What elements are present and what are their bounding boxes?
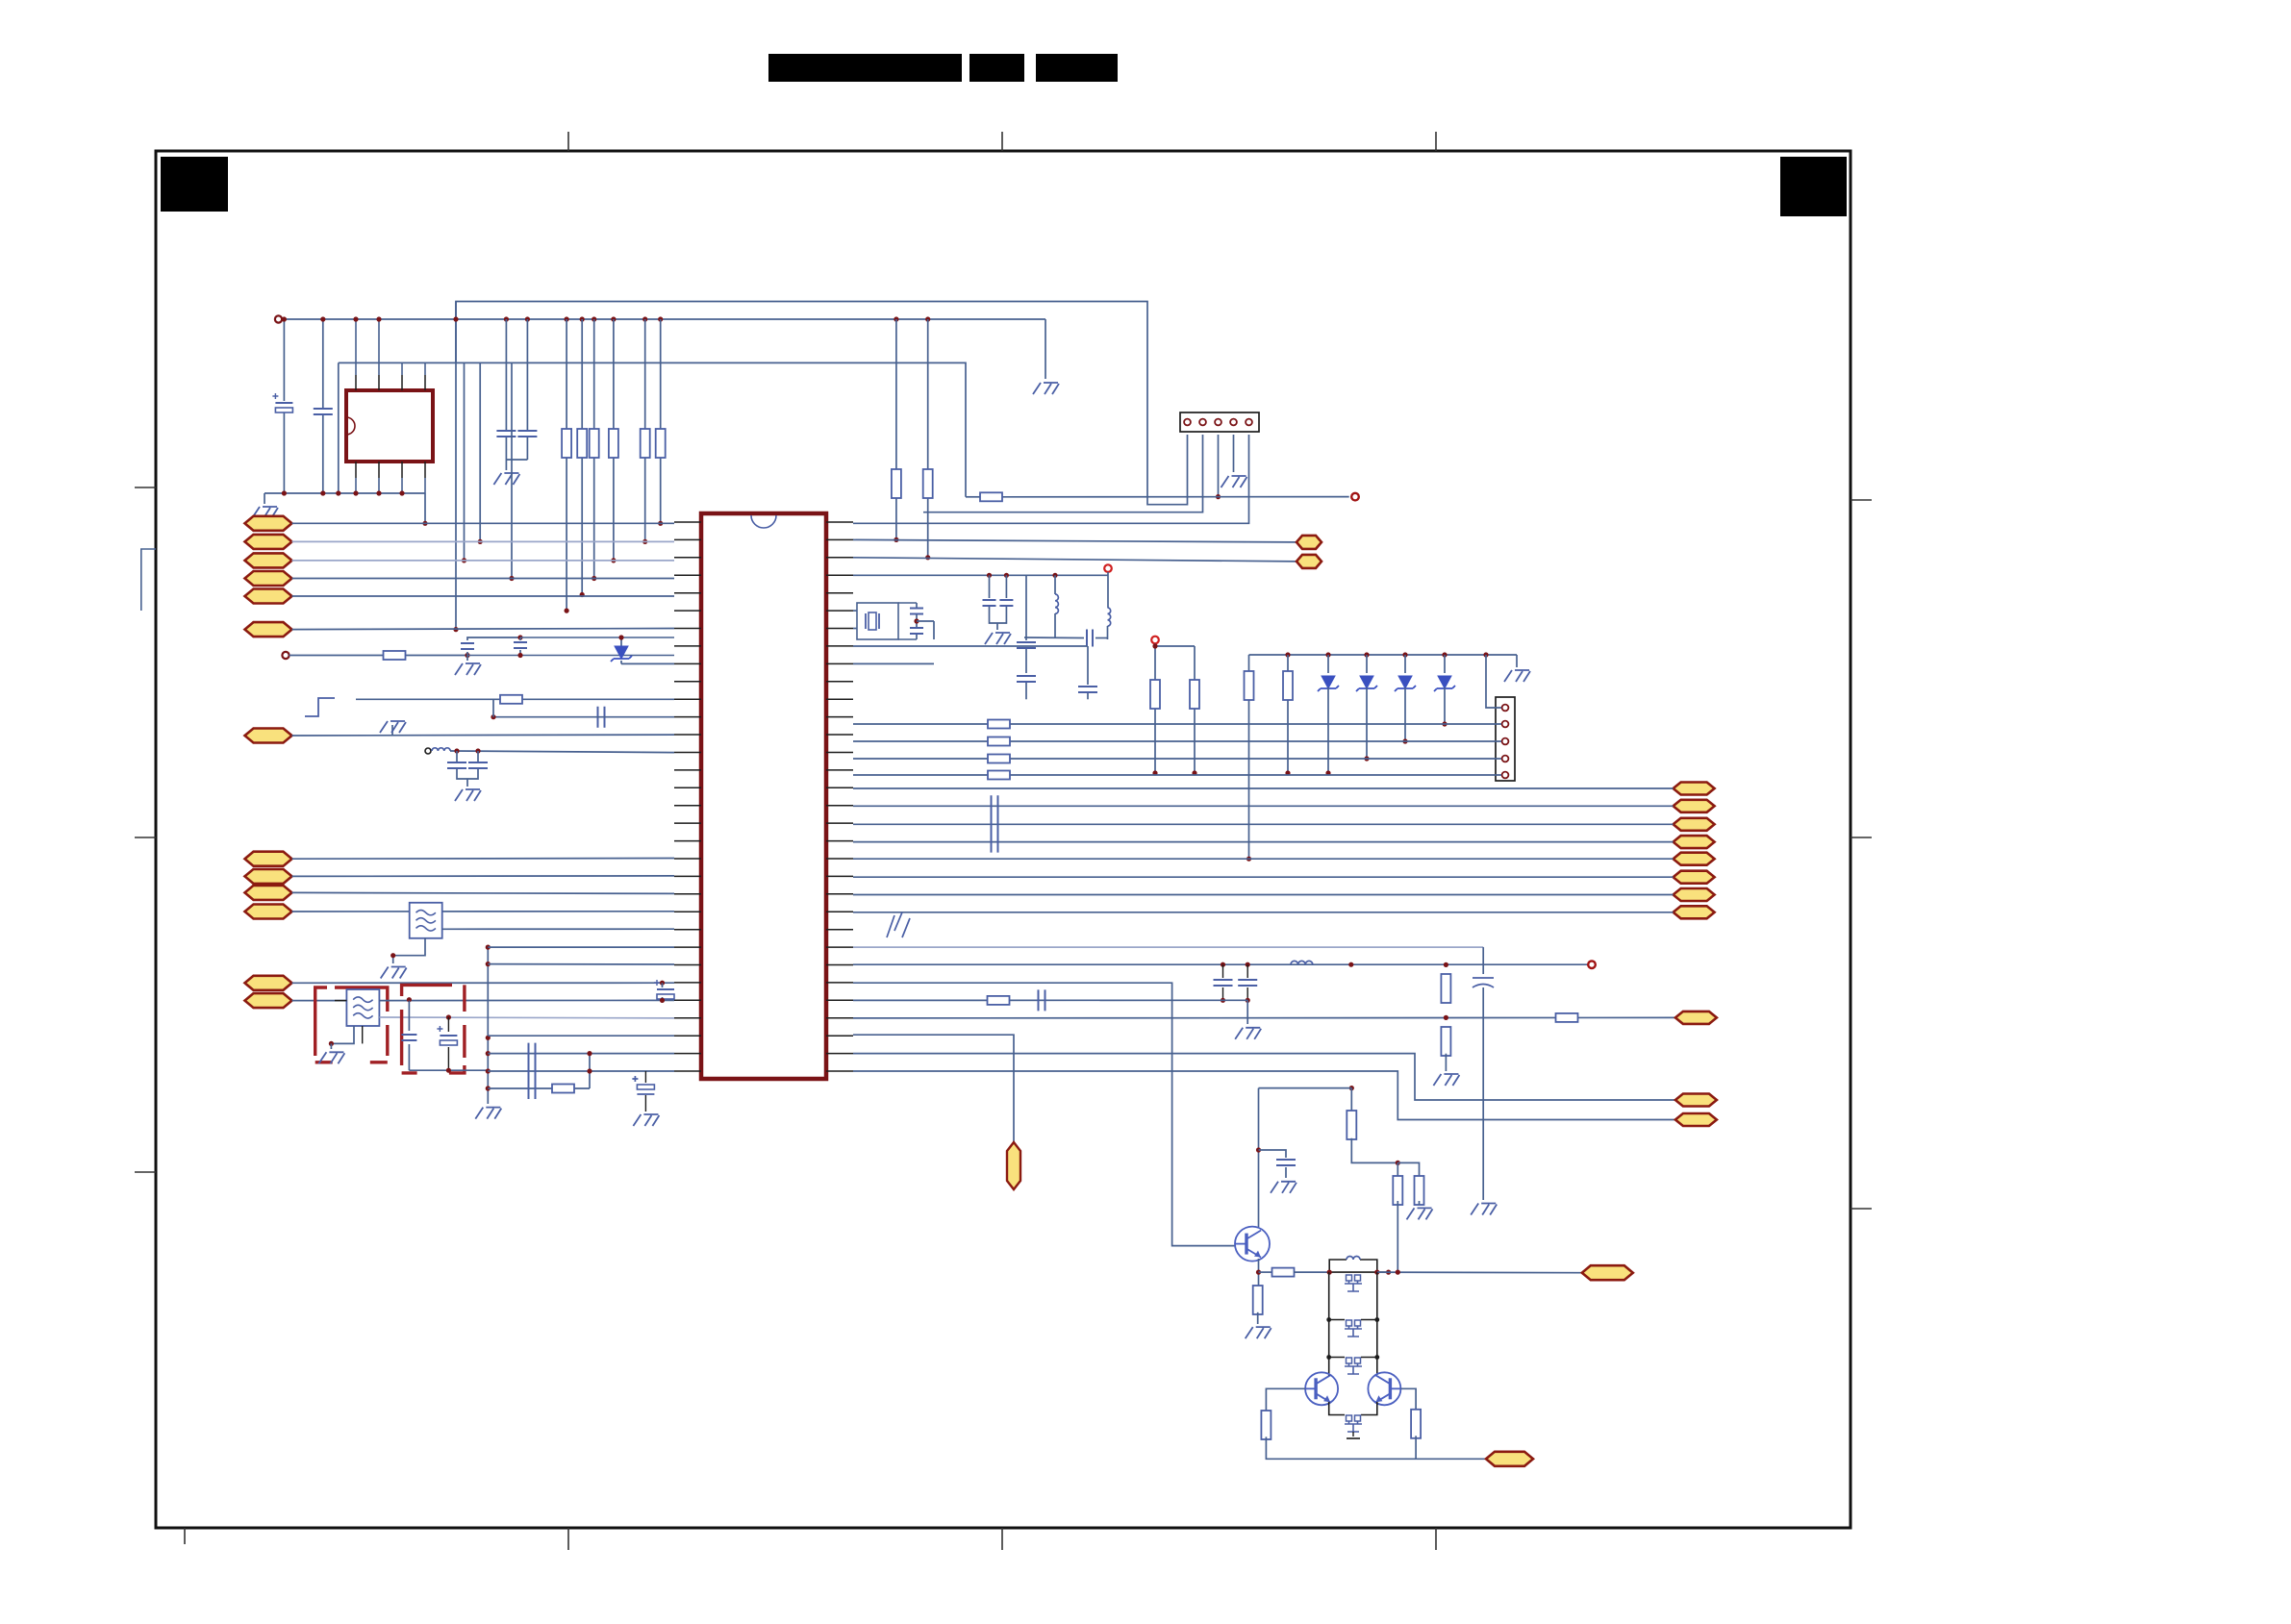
pin28R line bbox=[853, 1016, 1675, 1019]
node VCC open circle bbox=[275, 315, 282, 322]
capacitor C10 bbox=[401, 1035, 416, 1040]
flag IN3 bbox=[245, 553, 292, 567]
ground G5 bbox=[455, 663, 481, 675]
cap C7 series bbox=[598, 707, 605, 728]
series cap C13b bbox=[529, 1078, 536, 1099]
ground G7 lead bbox=[466, 779, 468, 787]
resistor R20 bbox=[988, 771, 1010, 780]
flag OUT3 bbox=[1674, 818, 1715, 831]
capacitor C5 bbox=[461, 643, 474, 649]
bottom out wire bbox=[1416, 1458, 1486, 1460]
OUT7 wire bbox=[853, 894, 1674, 896]
FL2 wires bbox=[335, 1000, 346, 1002]
U1 pins bbox=[674, 521, 701, 523]
flag VOUT vertical bbox=[1007, 1142, 1020, 1189]
right small cap C15 bbox=[660, 981, 665, 986]
fiducial ticks bbox=[567, 132, 569, 151]
node open circle AGC bbox=[282, 652, 289, 659]
flag OUT12 bbox=[1582, 1265, 1633, 1280]
ground G20 bbox=[1407, 1208, 1433, 1219]
pullup resistor bank wires bbox=[660, 319, 662, 523]
under-IC line junction bbox=[1349, 1086, 1354, 1090]
cap C19 bbox=[1024, 637, 1084, 639]
shield box B bbox=[402, 985, 465, 1073]
box B cap C10 wires bbox=[407, 997, 412, 1002]
pin7R stub bbox=[853, 628, 857, 630]
LC block trimmer bbox=[1347, 1275, 1352, 1281]
node circle small bbox=[425, 748, 431, 754]
series cap C13 bbox=[529, 1061, 536, 1082]
pin16R line bbox=[853, 774, 1501, 776]
resistor R28 bbox=[1397, 1162, 1398, 1180]
resistor R26 bbox=[1272, 1268, 1295, 1277]
node open circle NC1 bbox=[1351, 493, 1359, 501]
pin8R line bbox=[853, 645, 1088, 647]
transistor Q2 bbox=[1305, 1372, 1338, 1405]
IN9 wire bbox=[292, 875, 675, 878]
pin31L wire bbox=[488, 1070, 674, 1072]
electrolytic C11 wires bbox=[447, 1017, 449, 1032]
IN10 wire bbox=[292, 892, 675, 893]
caps C20 C21 column bbox=[1025, 575, 1027, 640]
coil L3 bbox=[1291, 961, 1313, 964]
emitter out wire bbox=[1256, 1270, 1261, 1275]
pin6R stub bbox=[853, 610, 857, 612]
vertical drop x1542 bbox=[1482, 947, 1484, 974]
electrolytic C16 bbox=[637, 1085, 654, 1089]
transistor Q3 bbox=[1368, 1372, 1400, 1405]
main IC U1 body bbox=[701, 513, 826, 1079]
OUT2 wire bbox=[853, 805, 1674, 807]
FL1 output wire bbox=[442, 928, 674, 930]
pin31R staircase to flag bbox=[853, 1071, 1675, 1120]
pin step line bbox=[853, 946, 1483, 948]
capacitor C3 bbox=[496, 431, 516, 437]
capacitor C26 bbox=[1473, 978, 1494, 987]
R27 chain from under-IC line bbox=[1350, 1088, 1352, 1112]
AGC net wires bbox=[465, 653, 469, 658]
rail A wire bbox=[456, 302, 1188, 505]
Q1 emitter wire bbox=[1258, 1259, 1260, 1288]
crossing vertical x482 bbox=[464, 362, 466, 561]
OUT8 wire bbox=[853, 912, 1674, 913]
R23 R24 chain bbox=[1441, 974, 1450, 1003]
node open circle PWR bbox=[1588, 961, 1596, 968]
pin26R line bbox=[853, 983, 1235, 1245]
top redaction bar 2 bbox=[969, 54, 1024, 82]
decoupling caps C3 C4 leads bbox=[505, 319, 507, 430]
flag OUT8 bbox=[1674, 906, 1715, 918]
IN4 wire bbox=[292, 578, 675, 580]
ground G18 bbox=[1271, 1182, 1297, 1193]
pin4R line bbox=[853, 574, 1108, 576]
wire drop x351 bbox=[338, 362, 340, 493]
diode D4 bbox=[1404, 655, 1406, 673]
capacitor C2 leads bbox=[322, 319, 324, 408]
ground G13 bbox=[1504, 670, 1530, 682]
capacitor C8 bbox=[447, 762, 466, 768]
diode D3 bbox=[1366, 655, 1368, 673]
RC cluster wires bbox=[450, 751, 674, 753]
resistor R7 bbox=[892, 469, 901, 498]
flag OUT11 bbox=[1675, 1113, 1717, 1126]
flag OUT6 bbox=[1674, 871, 1715, 884]
U2 top pins bbox=[355, 319, 357, 375]
corner black box top-left bbox=[161, 157, 228, 212]
resistor R8 wire bbox=[927, 319, 929, 558]
ground G19 bbox=[1246, 1327, 1271, 1338]
pin2R line to flag bbox=[853, 539, 1297, 542]
VT resistor wires bbox=[1154, 643, 1156, 773]
crystal X1 bbox=[866, 613, 879, 629]
CN1 pin4 wire bbox=[1233, 435, 1235, 472]
flag IN10 bbox=[245, 886, 292, 900]
Q2 base network bbox=[1266, 1388, 1305, 1412]
crossing vertical x499 bbox=[479, 362, 481, 541]
IN1 wire bbox=[292, 522, 675, 524]
box B bottom wire bbox=[409, 1069, 488, 1071]
resistor R18 bbox=[988, 737, 1010, 746]
flag OUT-A bbox=[1297, 536, 1322, 549]
resistor R19 bbox=[988, 755, 1010, 763]
series cap C12 bbox=[529, 1043, 536, 1064]
capacitor C4 bbox=[517, 431, 537, 437]
emitter join wires bbox=[1329, 1402, 1345, 1415]
Q1 collector feed bbox=[1259, 1087, 1352, 1089]
ladder rails bbox=[1328, 1272, 1330, 1375]
flag OUT5 bbox=[1674, 853, 1715, 865]
ladder trimmer 4 bbox=[1347, 1415, 1352, 1421]
ground G13 stub bbox=[1516, 655, 1518, 667]
resistor R12 bbox=[552, 1085, 574, 1093]
ground drop x1297 bbox=[1246, 1000, 1248, 1024]
series cap C29 bbox=[1039, 989, 1045, 1011]
pin13R line bbox=[853, 723, 1501, 725]
pin30R staircase to flag bbox=[853, 1054, 1675, 1100]
resistor R10 bbox=[384, 651, 406, 660]
Q3 base network bbox=[1400, 1388, 1416, 1412]
flag OUT10 bbox=[1675, 1094, 1717, 1107]
pin9R line bbox=[853, 662, 934, 664]
ground drop from top rail bbox=[1045, 319, 1046, 379]
ground G6 rotated bbox=[380, 721, 406, 733]
sheet border bbox=[156, 151, 1850, 1528]
OUT6 wire bbox=[853, 876, 1674, 878]
shield box A bbox=[315, 987, 388, 1062]
resistor R17 bbox=[988, 720, 1010, 729]
cap pair C17 C18 bbox=[989, 575, 991, 598]
zener D1 bbox=[615, 646, 628, 659]
connector CN1 body bbox=[1180, 412, 1259, 432]
resistor R22 bbox=[1556, 1013, 1578, 1022]
OUT5 wire bbox=[853, 858, 1674, 860]
CN1 pin5 wire bbox=[853, 435, 1249, 523]
resistor R7 wire bbox=[895, 319, 897, 539]
electrolytic C1 leads bbox=[283, 319, 285, 401]
Q1 collector rail bbox=[1258, 1088, 1260, 1227]
diode bus bbox=[1249, 654, 1518, 656]
flag IN6 bbox=[245, 622, 292, 637]
resistor R8 bbox=[923, 469, 933, 498]
OUT1 wire bbox=[853, 787, 1674, 789]
corner black box top-right bbox=[1780, 157, 1847, 216]
IN3 wire bbox=[292, 560, 675, 562]
ground G2 bbox=[252, 507, 278, 518]
U2 ground rail bbox=[264, 492, 425, 494]
electrolytic C16 wires bbox=[644, 1071, 646, 1083]
IN2 wire bbox=[292, 540, 675, 542]
link vertical x613 bbox=[589, 1054, 591, 1088]
flag OUT7 bbox=[1674, 888, 1715, 901]
filter FL1 input wire bbox=[409, 911, 411, 912]
IN6 wire bbox=[292, 629, 675, 630]
flag OUT2 bbox=[1674, 800, 1715, 812]
pin3R line to flag bbox=[853, 558, 1297, 562]
rotated ground G14 bbox=[887, 912, 910, 937]
OSC wires bbox=[1107, 572, 1109, 608]
Q2 collector link bbox=[1328, 1374, 1330, 1377]
pin29L wire bbox=[488, 1035, 674, 1037]
pin25L wire bbox=[488, 946, 674, 948]
flag IN8 bbox=[245, 852, 292, 866]
pin15R line bbox=[853, 758, 1501, 760]
ground G7 bbox=[455, 789, 481, 801]
resistor R14 wires bbox=[1155, 645, 1195, 647]
flag IN9 bbox=[245, 869, 292, 884]
connector CN2 body bbox=[1496, 697, 1515, 781]
ground G21 small bbox=[1347, 1437, 1360, 1439]
diode D2 bbox=[1327, 655, 1329, 673]
crossing vertical x474 bbox=[455, 302, 457, 630]
flag IN11 bbox=[245, 905, 292, 919]
series caps C23-C25 bbox=[992, 795, 998, 816]
flag IN12 bbox=[245, 976, 292, 990]
rail junction dots bbox=[282, 316, 287, 321]
ground G8 bbox=[381, 967, 407, 979]
pin32L stub bbox=[488, 963, 674, 965]
ground G4 bbox=[1221, 476, 1247, 487]
U2 bottom pins bbox=[355, 462, 357, 478]
ground G2 lead bbox=[264, 493, 265, 504]
zener D1 leads bbox=[620, 637, 622, 646]
flag IN13 bbox=[245, 993, 292, 1008]
flag OUT1 bbox=[1674, 783, 1715, 795]
U2 pin4 bus tap bbox=[424, 493, 426, 523]
electrolytic C11 bbox=[440, 1035, 457, 1037]
resistor R25 bbox=[1253, 1286, 1263, 1314]
stub line y1132 bbox=[488, 1087, 590, 1089]
OUT3 wire bbox=[853, 823, 1674, 825]
pin27R line bbox=[853, 999, 1247, 1001]
ground G16 bbox=[1235, 1028, 1261, 1039]
coil L1 bbox=[432, 748, 450, 751]
step waveform symbol bbox=[305, 698, 335, 716]
capacitor C6 stub bbox=[517, 635, 522, 639]
OUT4 wire bbox=[853, 841, 1674, 843]
ground G12 bbox=[985, 633, 1011, 644]
ground G1 bbox=[1033, 383, 1059, 394]
FL1 ground wires bbox=[393, 937, 425, 963]
CN2 pin1 wire bbox=[1486, 655, 1501, 708]
IN5 wire bbox=[292, 595, 675, 597]
diode D5 bbox=[1444, 655, 1446, 673]
filter FL1 bbox=[410, 903, 442, 938]
node open circle OSC bbox=[1104, 564, 1112, 572]
ground G15 bbox=[1471, 1204, 1497, 1215]
LC bottom wires bbox=[1329, 1271, 1388, 1273]
IN13 wire bbox=[292, 1000, 347, 1002]
flag IN1 bbox=[245, 516, 292, 531]
LC block body bbox=[1329, 1260, 1377, 1272]
IN7 ground stub bbox=[391, 725, 393, 736]
AGC wire bbox=[290, 655, 468, 657]
flag IN2 bbox=[245, 535, 292, 549]
resistor R29 bbox=[1397, 1162, 1419, 1180]
transistor Q1 bbox=[1235, 1227, 1270, 1262]
ground G10 bbox=[475, 1108, 501, 1119]
ground G9 bbox=[318, 1052, 344, 1063]
CN1 pin2 wire bbox=[923, 435, 1203, 512]
flag IN4 bbox=[245, 571, 292, 586]
bus resistor R16 bbox=[1287, 655, 1289, 773]
vertical bus wire bbox=[487, 947, 489, 1104]
pin25R line bbox=[853, 963, 1592, 965]
CN1 pin3 wire bbox=[1218, 435, 1220, 497]
crossing vertical x532 bbox=[511, 362, 513, 578]
flag OUT-B bbox=[1297, 555, 1322, 568]
IN12 wire bbox=[292, 982, 675, 984]
flag OUT13 bbox=[1486, 1452, 1533, 1466]
IN11 wire bbox=[292, 911, 675, 912]
cap C22 bbox=[1087, 646, 1089, 685]
line to flag OUT12 bbox=[1377, 1271, 1582, 1274]
caps C27 C28 to lower line bbox=[1221, 962, 1225, 967]
ground G3 bbox=[493, 473, 519, 485]
flag IN5 bbox=[245, 589, 292, 604]
capacitor C2 bbox=[314, 409, 333, 414]
CN1 pins bbox=[1184, 419, 1191, 426]
pullup resistors R1-R6 bbox=[656, 429, 666, 458]
top redaction bar 1 bbox=[768, 54, 962, 82]
U1 notch bbox=[751, 515, 776, 528]
flag OUT9 bbox=[1675, 1012, 1717, 1024]
node open circle VT bbox=[1151, 637, 1159, 644]
crystal caps bbox=[916, 603, 918, 608]
pin14R line bbox=[853, 740, 1501, 742]
resistor R11 line bbox=[356, 698, 674, 700]
collector branch cap C30 bbox=[1259, 1150, 1287, 1158]
left margin bracket bbox=[141, 549, 156, 611]
CN2 pins bbox=[1502, 705, 1509, 712]
8-pin IC U2 body bbox=[346, 390, 433, 462]
resistor R13 bbox=[1150, 680, 1160, 709]
electrolytic C1 bbox=[275, 402, 292, 404]
coil L2 bbox=[1054, 575, 1056, 594]
ladder trimmer 3 bbox=[1347, 1358, 1352, 1363]
crystal loop bbox=[857, 603, 898, 639]
pin24R? drop to vertical flag bbox=[853, 1035, 1014, 1142]
ground G11 bbox=[633, 1114, 659, 1126]
resistor R14 bbox=[1190, 680, 1199, 709]
service line with resistor R9 bbox=[1001, 496, 1348, 498]
ground G17 bbox=[1433, 1074, 1459, 1086]
resistor R21 bbox=[988, 996, 1010, 1005]
top rail wire bbox=[282, 318, 1045, 320]
IN8 wire bbox=[292, 858, 675, 861]
capacitor C9 bbox=[468, 762, 488, 768]
flag IN7 bbox=[245, 729, 292, 743]
ladder trimmer 2 bbox=[1347, 1320, 1352, 1326]
y377 link wire bbox=[339, 362, 966, 496]
pin30L wire bbox=[488, 1053, 674, 1055]
filter FL2 bbox=[346, 989, 379, 1026]
top redaction bar 3 bbox=[1036, 54, 1118, 82]
IN7 wire bbox=[292, 734, 675, 737]
U2 notch bbox=[346, 417, 355, 435]
flag OUT4 bbox=[1674, 836, 1715, 848]
bus resistor R15 bbox=[1248, 655, 1250, 859]
